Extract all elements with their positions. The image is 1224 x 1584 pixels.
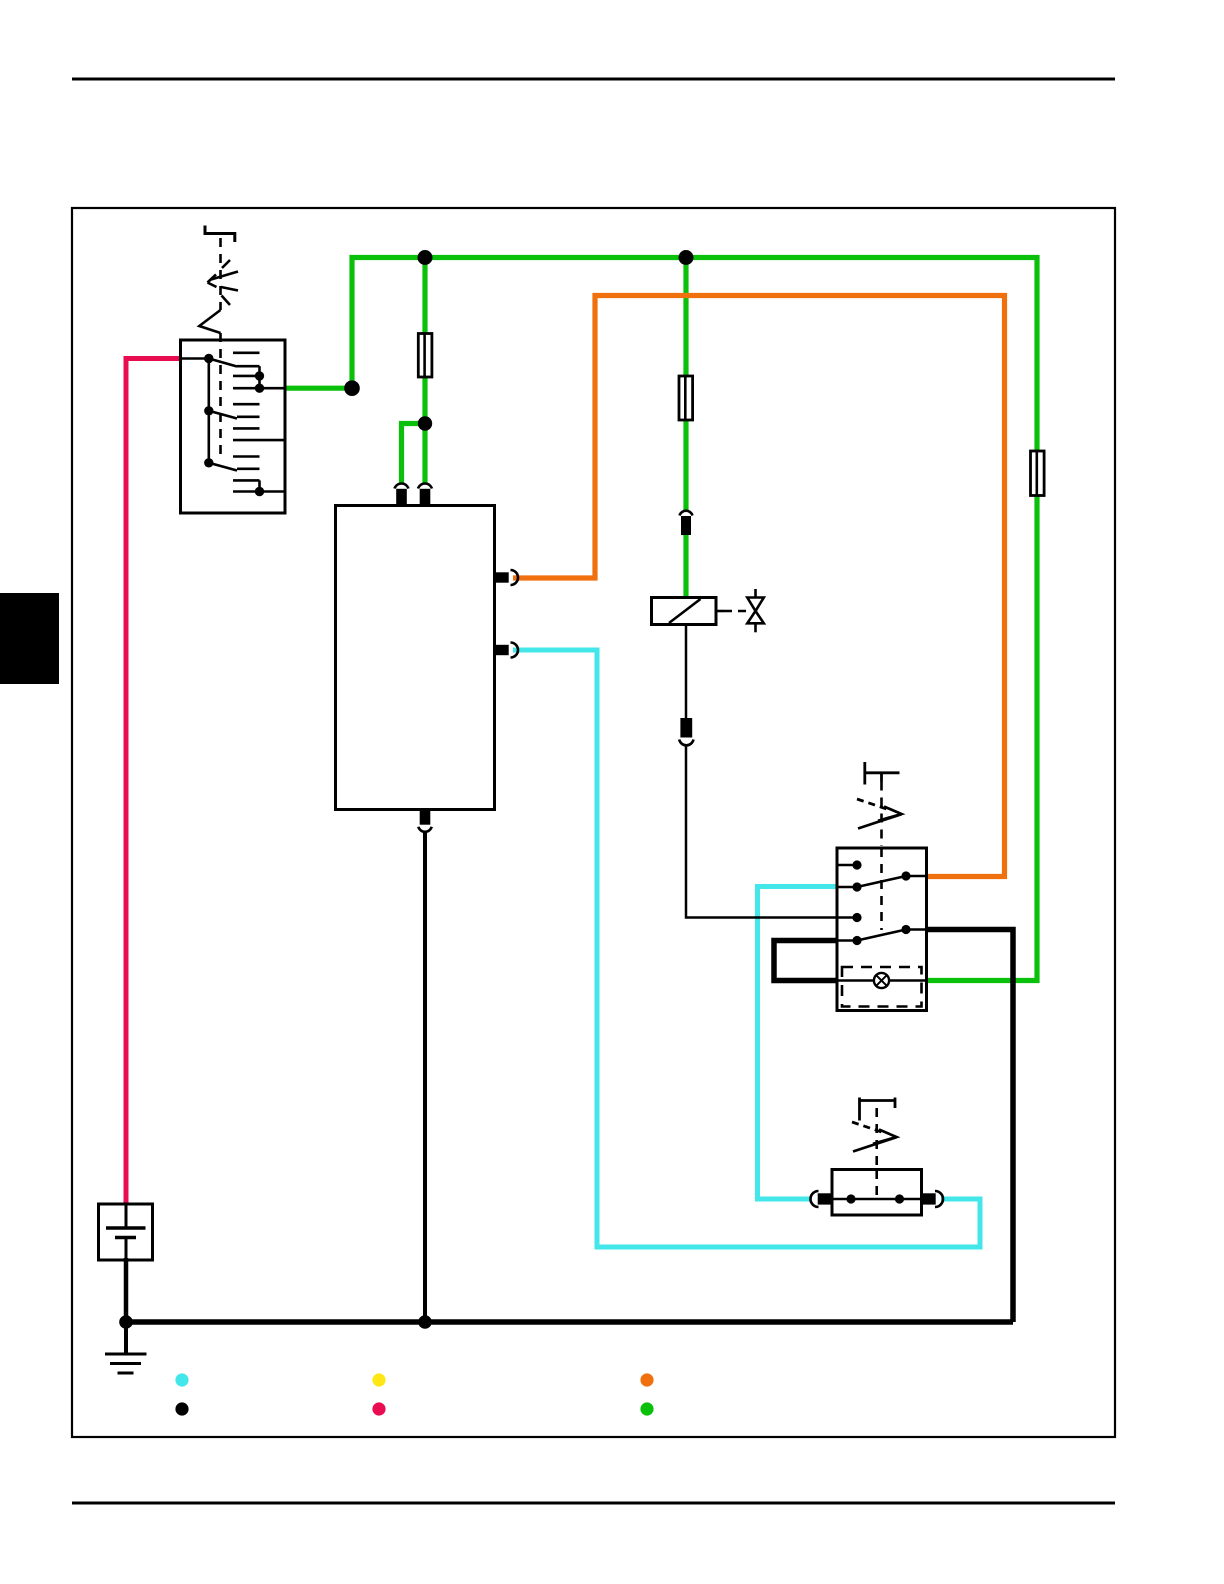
- wire green branch fuse F1 to ECU: [402, 258, 426, 485]
- relay fuel solenoid K1: [652, 598, 725, 625]
- ground symbol: [105, 1322, 147, 1373]
- valve actuator linkage dashed: [724, 610, 746, 613]
- lamp dashed box: [842, 967, 922, 1007]
- wire black ground bus: [126, 1319, 1013, 1325]
- connector ECU pin 2: [418, 484, 432, 506]
- lever actuator: [863, 762, 866, 785]
- seat switch S3: [832, 1098, 922, 1216]
- top rule: [72, 78, 1115, 81]
- node ECU ground junction: [418, 1315, 432, 1329]
- wire cyan ECU to seat switch: [513, 650, 980, 1247]
- legend dot black: [175, 1402, 188, 1415]
- wire black PTO switch to ground bus: [927, 930, 1014, 1323]
- connector ECU pin 1: [395, 484, 409, 506]
- lever actuator: [858, 1098, 861, 1121]
- ECU control module U1: [336, 506, 495, 810]
- connector ECU right pin 4: [495, 643, 519, 658]
- lever arrow: [852, 1122, 886, 1134]
- indicator lamp row: [837, 979, 874, 982]
- bottom rule: [72, 1502, 1115, 1505]
- legend dot cyan: [175, 1373, 188, 1386]
- page tab marker: [0, 593, 59, 684]
- key switch wiper arms: [209, 359, 237, 367]
- node green junction B: [418, 250, 433, 265]
- key switch S1: [181, 226, 286, 514]
- legend dot green: [640, 1402, 653, 1415]
- key rotate actuator arrow: [208, 260, 239, 305]
- connector relay supply: [680, 511, 693, 535]
- valve symbol: [747, 589, 764, 632]
- legend dot orange: [640, 1373, 653, 1386]
- connector seat switch right: [922, 1191, 944, 1207]
- jumper wire thick: [774, 941, 837, 981]
- wire black relay to PTO switch: [686, 625, 837, 918]
- wire orange ECU to PTO switch: [513, 296, 1005, 877]
- indicator lamp: [874, 973, 889, 988]
- wire pink battery positive: [126, 359, 181, 1205]
- wire black ECU ground: [423, 832, 427, 1322]
- node green junction D: [418, 416, 432, 430]
- battery B1: [99, 1204, 153, 1260]
- wire cyan seat switch to PTO switch: [758, 887, 838, 1200]
- connector ECU ground pin: [418, 810, 431, 832]
- wire green key switch to bus: [285, 258, 1037, 981]
- key switch common rail: [181, 357, 209, 360]
- connector relay output: [679, 718, 693, 745]
- key switch terminal stubs: [233, 353, 285, 492]
- connector ECU right pin 3: [495, 570, 519, 585]
- fuse F1: [418, 334, 432, 378]
- wire black battery negative: [124, 1258, 129, 1322]
- node ground junction: [119, 1315, 133, 1329]
- connector seat switch left: [811, 1191, 832, 1207]
- contact line: [832, 1198, 922, 1201]
- legend dot yellow: [372, 1373, 385, 1386]
- lever arrow: [857, 799, 891, 811]
- legend dot pink: [372, 1402, 385, 1415]
- contacts: [837, 864, 857, 867]
- wire green branch fuse F2 to relay: [683, 258, 688, 599]
- diagram border frame: [72, 208, 1115, 1437]
- fuse F3: [1031, 451, 1045, 496]
- node green junction C: [679, 250, 694, 265]
- fuse F2: [679, 376, 693, 420]
- PTO switch S2: [774, 762, 927, 1011]
- node green junction A: [344, 380, 360, 396]
